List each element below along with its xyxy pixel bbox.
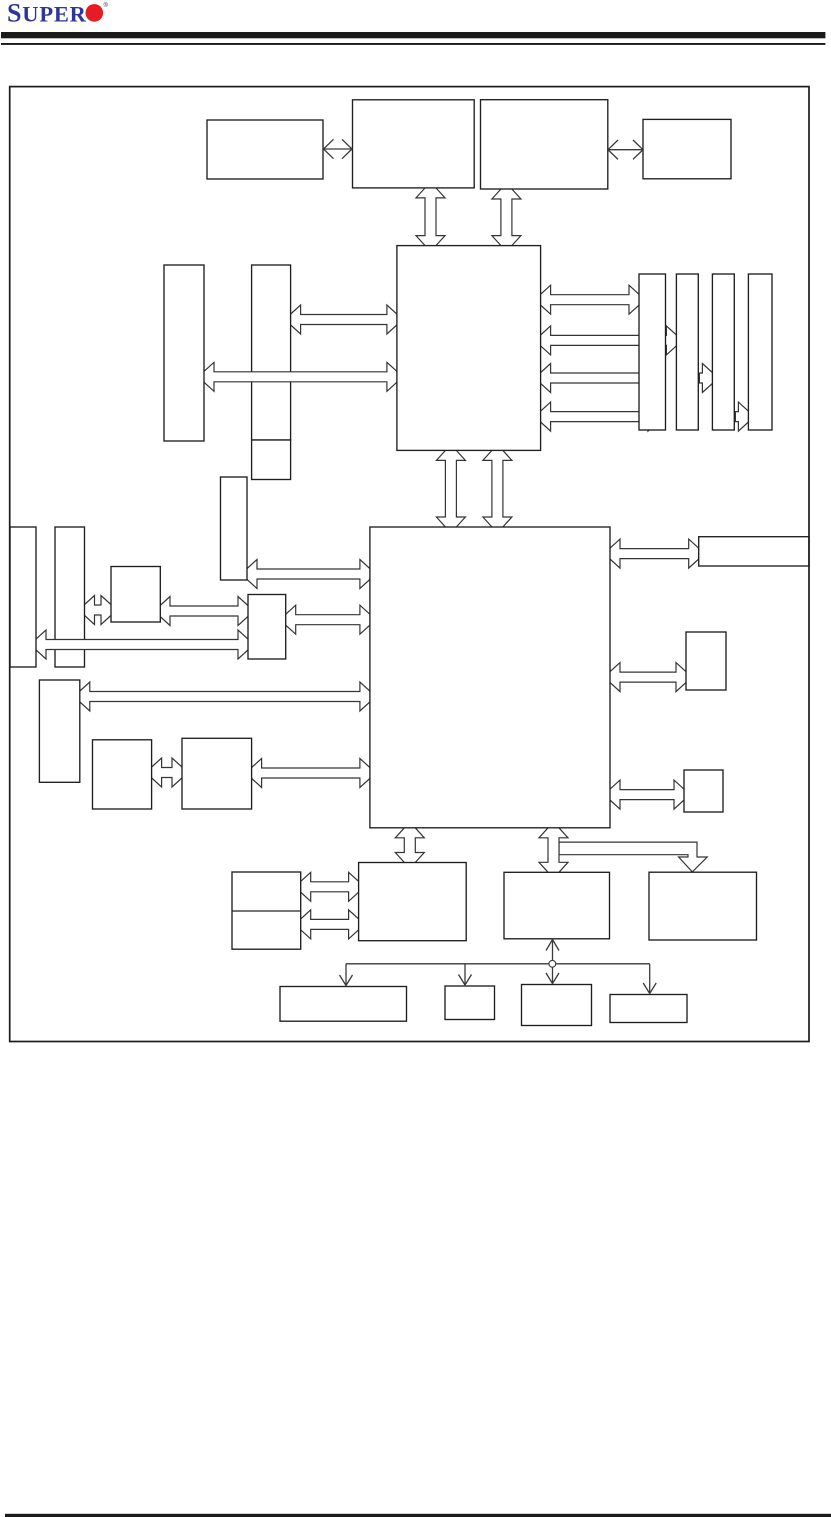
box R — [649, 872, 757, 940]
arrow South Bridge to box P (vertical) — [395, 822, 424, 869]
junction node circle — [549, 960, 556, 967]
drop wire to box S — [340, 964, 353, 986]
arrow CPU1 to North Bridge (vertical) — [416, 182, 445, 252]
header thin rule — [1, 43, 825, 45]
box F2 below memory column — [252, 440, 291, 480]
arrow North Bridge to slot4 — [535, 402, 664, 431]
svg-text:SUPER: SUPER — [7, 0, 87, 27]
slot column 4 — [748, 274, 772, 430]
thin arrow up into box Q — [546, 940, 559, 964]
box Q — [504, 872, 610, 939]
box2 left narrow column — [55, 527, 85, 667]
box E memory column left — [164, 265, 204, 441]
box B CPU1 — [353, 100, 475, 188]
arrow North Bridge to slot3 — [535, 364, 664, 393]
box N — [686, 632, 726, 690]
box T bottom row — [445, 986, 495, 1020]
arrow box1 to box H (over box2) — [30, 630, 254, 659]
drop wire to box V — [643, 964, 656, 994]
arrow box K to box L — [146, 758, 188, 787]
stub arrowhead slot3 to slot4 — [735, 402, 754, 431]
arrow box W to box P lower — [295, 910, 365, 939]
South Bridge — [370, 527, 610, 828]
arrow North Bridge to South Bridge left (vertical) — [436, 444, 465, 533]
arrow South Bridge to box Q (vertical) — [539, 822, 568, 879]
box A top left — [207, 120, 323, 179]
thin arrow box A to CPU1 — [324, 139, 353, 158]
thin arrow CPU2 to box D — [608, 140, 643, 159]
arrow North Bridge to slot2 — [535, 326, 664, 355]
slot column 1 — [639, 274, 666, 430]
arrow memory E to North Bridge (over F) — [198, 362, 403, 391]
drop wire to box U — [546, 964, 559, 984]
bent arrow South Bridge to box R — [559, 842, 707, 872]
stub arrowhead slot1 to slot2 — [663, 326, 682, 355]
arrow South Bridge to box M — [604, 539, 705, 568]
box F memory slot column — [252, 265, 291, 440]
box C CPU2 — [481, 100, 608, 189]
arrow box H to South Bridge — [280, 605, 376, 634]
box M wide right — [699, 537, 809, 566]
box U bottom row — [522, 985, 592, 1026]
header thick rule — [1, 32, 825, 38]
arrow box I to South Bridge — [241, 560, 376, 589]
box V bottom row — [610, 995, 687, 1023]
footer rule — [5, 1514, 831, 1517]
logo red disc O — [86, 4, 104, 22]
diagram outer frame — [10, 87, 809, 1042]
box1 far left column — [10, 527, 36, 667]
box P — [359, 863, 467, 941]
box G — [111, 567, 160, 623]
box K — [93, 740, 152, 809]
box W divider — [232, 910, 301, 912]
box J — [39, 680, 79, 782]
arrow memory F to North Bridge — [285, 305, 403, 334]
arrow South Bridge to box N — [604, 663, 692, 692]
box O — [684, 770, 723, 812]
svg-text:®: ® — [104, 2, 109, 9]
drop wire to box T — [459, 964, 472, 985]
arrow box J to South Bridge — [74, 682, 376, 711]
box H — [248, 595, 286, 660]
arrow CPU2 to North Bridge (vertical) — [492, 183, 521, 252]
arrow North Bridge to slot1 — [535, 285, 645, 314]
distribution wire horizontal — [346, 963, 650, 965]
slot column 2 — [676, 274, 698, 430]
arrow box G to box H — [154, 597, 254, 626]
box S bottom row — [280, 987, 407, 1022]
box I tall narrow — [221, 477, 248, 580]
arrow South Bridge to box O — [604, 780, 690, 809]
arrow box W to box P upper — [295, 872, 365, 901]
box L — [182, 738, 252, 809]
box W stacked pair — [232, 872, 301, 949]
slot column 3 — [712, 274, 734, 430]
arrow North Bridge to South Bridge right (vertical) — [483, 444, 512, 533]
box D top right — [643, 119, 731, 178]
stub arrowhead slot2 to slot3 — [699, 364, 718, 393]
arrow box L to South Bridge — [246, 759, 376, 788]
North Bridge — [397, 246, 541, 451]
arrow box2 to box G — [79, 596, 118, 625]
